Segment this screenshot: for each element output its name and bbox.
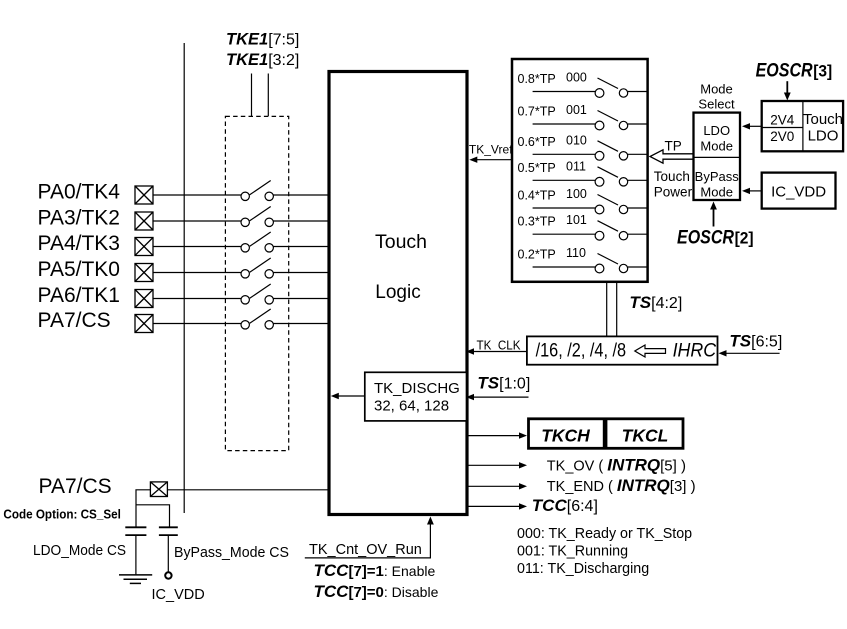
wire 0.3*TP stub (533, 233, 595, 235)
wire to TKCH (467, 432, 527, 438)
wire switch 010 to edge (628, 153, 648, 155)
pin PA3/TK2 pad (135, 212, 153, 230)
capacitor ByPass mode CS (159, 527, 178, 535)
svg-text:TK_OV ( INTRQ[5] ): TK_OV ( INTRQ[5] ) (547, 455, 686, 474)
wire switch 101 to edge (628, 233, 648, 235)
wire TK_Cnt_OV_Run arrow (305, 517, 434, 558)
wire IC_VDD to Mode Select (742, 188, 762, 194)
wire TK_END arrow (467, 483, 527, 489)
svg-text:100: 100 (566, 187, 587, 201)
switch TK1 (241, 284, 273, 304)
pin PA6/TK1 pad (135, 290, 153, 308)
svg-text:Power: Power (654, 185, 693, 200)
wire switch TK0 to Touch Logic (273, 272, 328, 274)
svg-text:PA7/CS: PA7/CS (39, 475, 112, 498)
wire cap1 to ground (135, 535, 137, 574)
wire TS42 a (606, 282, 608, 337)
svg-text:TK_END ( INTRQ[3] ): TK_END ( INTRQ[3] ) (547, 476, 696, 495)
wire switch TK1 to Touch Logic (273, 298, 328, 300)
wire TKE1 control a (251, 74, 253, 117)
svg-text:0.4*TP: 0.4*TP (518, 189, 556, 203)
vertical wire CS bus (183, 43, 185, 513)
svg-text:/16, /2, /4, /8: /16, /2, /4, /8 (536, 340, 627, 361)
wire switch TK2 to Touch Logic (273, 220, 328, 222)
svg-text:[2]: [2] (735, 229, 754, 248)
svg-text:TKE1[3:2]: TKE1[3:2] (226, 51, 299, 69)
svg-text:001: TK_Running: 001: TK_Running (517, 543, 628, 559)
wire PA0/TK4 pad to switch (153, 194, 241, 196)
clock divider block IHRC (527, 336, 718, 364)
wire TK_CLK arrow (466, 348, 527, 354)
svg-text:001: 001 (566, 103, 587, 117)
svg-text:IC_VDD: IC_VDD (771, 184, 826, 201)
wire cap2 to IC_VDD terminal (167, 535, 169, 572)
svg-text:101: 101 (566, 213, 587, 227)
Mode Select block (694, 113, 741, 200)
switch TK3 (241, 232, 273, 252)
open arrow in divider (635, 345, 666, 357)
svg-text:Mode: Mode (700, 139, 733, 154)
switch ref 000 (595, 78, 628, 97)
svg-text:LDO_Mode CS: LDO_Mode CS (33, 542, 126, 559)
svg-text:TKE1[7:5]: TKE1[7:5] (226, 31, 299, 49)
svg-text:0.8*TP: 0.8*TP (518, 72, 556, 86)
wire pad to caps (136, 490, 170, 528)
svg-text:011: TK_Discharging: 011: TK_Discharging (517, 561, 649, 577)
ground (119, 575, 152, 584)
wire switch 110 to edge (628, 266, 648, 268)
svg-text:Mode: Mode (700, 185, 733, 200)
svg-text:PA0/TK4: PA0/TK4 (38, 181, 121, 204)
svg-text:0.5*TP: 0.5*TP (518, 161, 556, 175)
pin PA4/TK3 pad (135, 238, 153, 256)
wire PA7/CS to Touch Logic (167, 489, 329, 491)
svg-text:TKCL: TKCL (622, 426, 669, 446)
switch TK4 (241, 181, 273, 201)
svg-text:0.6*TP: 0.6*TP (518, 135, 556, 149)
IC_VDD terminal (165, 572, 171, 578)
svg-text:TCC[7]=0: Disable: TCC[7]=0: Disable (314, 582, 439, 601)
wire switch TK3 to Touch Logic (273, 246, 328, 248)
switch ref 001 (595, 111, 628, 130)
svg-text:32, 64, 128: 32, 64, 128 (374, 398, 449, 415)
wire Touch LDO to Mode Select (742, 123, 762, 129)
svg-text:Code Option: CS_Sel: Code Option: CS_Sel (3, 506, 121, 521)
wire PA6/TK1 pad to switch (153, 298, 241, 300)
wire switch CS to Touch Logic (273, 323, 328, 325)
wire PA3/TK2 pad to switch (153, 220, 241, 222)
svg-text:TK_Cnt_OV_Run: TK_Cnt_OV_Run (309, 542, 422, 558)
svg-text:0.2*TP: 0.2*TP (518, 248, 556, 262)
wire 0.4*TP stub (533, 207, 595, 209)
svg-text:0.7*TP: 0.7*TP (518, 105, 556, 119)
wire EOSCR3 arrow down (784, 81, 791, 100)
svg-text:TK_Vref: TK_Vref (469, 143, 513, 157)
wire 0.5*TP stub (533, 179, 595, 181)
wire PA7/CS pad to switch (153, 323, 241, 325)
svg-text:000: TK_Ready or TK_Stop: 000: TK_Ready or TK_Stop (517, 526, 692, 542)
svg-text:Touch: Touch (375, 231, 427, 253)
wire TK_Vref arrow (469, 157, 511, 163)
wire PA5/TK0 pad to switch (153, 272, 241, 274)
svg-text:110: 110 (566, 246, 586, 260)
switch ref 010 (595, 141, 628, 160)
pin PA0/TK4 pad (135, 186, 153, 204)
svg-text:TK_DISCHG: TK_DISCHG (374, 380, 460, 397)
TK_DISCHG block (365, 372, 467, 421)
wire 0.8*TP stub (533, 91, 595, 93)
svg-text:TS[4:2]: TS[4:2] (629, 293, 682, 312)
wire 0.7*TP stub (533, 123, 595, 125)
wire EOSCR2 arrow up (710, 202, 717, 227)
wire PA4/TK3 pad to switch (153, 246, 241, 248)
wire switch 011 to edge (628, 179, 648, 181)
svg-text:Touch: Touch (654, 169, 690, 184)
dashed switch-enable box (225, 116, 288, 450)
svg-text:PA6/TK1: PA6/TK1 (38, 284, 120, 307)
svg-text:TS[1:0]: TS[1:0] (477, 374, 530, 393)
svg-text:TCC[7]=1: Enable: TCC[7]=1: Enable (314, 561, 436, 580)
svg-text:IC_VDD: IC_VDD (152, 587, 205, 603)
switch TK2 (241, 207, 273, 227)
svg-text:TK_CLK: TK_CLK (477, 338, 521, 353)
svg-text:Mode: Mode (700, 81, 733, 96)
svg-text:Select: Select (698, 97, 735, 112)
wire switch 001 to edge (628, 123, 648, 125)
Touch Logic block U1 (329, 72, 467, 515)
svg-text:011: 011 (566, 159, 586, 173)
svg-text:2V4: 2V4 (770, 113, 795, 128)
svg-text:TKCH: TKCH (541, 426, 590, 446)
svg-text:010: 010 (566, 133, 587, 147)
wire switch 100 to edge (628, 207, 648, 209)
wire 0.6*TP stub (533, 153, 595, 155)
svg-text:[3]: [3] (813, 62, 832, 81)
IC_VDD block (762, 173, 836, 209)
svg-text:LDO: LDO (808, 128, 839, 145)
svg-text:LDO: LDO (703, 123, 730, 138)
wire TCC64 arrow (467, 503, 527, 509)
svg-text:2V0: 2V0 (770, 129, 794, 144)
wire 0.2*TP stub (533, 266, 595, 268)
svg-text:PA5/TK0: PA5/TK0 (38, 258, 120, 281)
svg-text:IHRC: IHRC (673, 340, 717, 361)
switch ref 101 (595, 221, 628, 240)
svg-text:ByPass_Mode CS: ByPass_Mode CS (174, 544, 289, 561)
switch ref 100 (595, 195, 628, 214)
svg-text:000: 000 (566, 71, 587, 85)
svg-text:EOSCR: EOSCR (677, 228, 734, 249)
pin PA5/TK0 pad (135, 264, 153, 282)
svg-text:ByPass: ByPass (695, 169, 740, 184)
switch ref 011 (595, 167, 628, 186)
wire TKE1 control b (267, 74, 269, 117)
legend TK states (517, 526, 692, 577)
svg-text:Logic: Logic (375, 282, 420, 303)
wire TS10 arrow (466, 394, 529, 400)
svg-text:TCC[6:4]: TCC[6:4] (532, 496, 598, 515)
svg-text:0.3*TP: 0.3*TP (518, 215, 556, 229)
svg-text:Touch: Touch (803, 111, 843, 128)
TP open arrow into selector (650, 150, 694, 163)
svg-text:PA4/TK3: PA4/TK3 (38, 232, 120, 255)
svg-text:TS[6:5]: TS[6:5] (729, 332, 782, 351)
pin PA7/CS pad bottom (150, 482, 167, 497)
svg-text:PA3/TK2: PA3/TK2 (38, 207, 120, 230)
voltage reference selector box (512, 59, 648, 282)
Touch LDO block (762, 101, 843, 151)
switch ref 110 (595, 254, 628, 273)
switch TK0 (241, 258, 273, 278)
discharge arrow to pins (331, 393, 365, 399)
wire TS42 b (616, 282, 618, 337)
svg-text:PA7/CS: PA7/CS (38, 309, 111, 332)
capacitor LDO mode CS (125, 527, 146, 535)
wire TK_OV arrow (467, 462, 527, 468)
wire TS65 arrow (719, 350, 780, 356)
svg-text:TP: TP (665, 139, 682, 154)
registers TKCH TKCL (529, 418, 684, 449)
wire switch 000 to edge (628, 91, 648, 93)
svg-text:EOSCR: EOSCR (756, 61, 813, 82)
wire switch TK4 to Touch Logic (273, 194, 328, 196)
switch CS (241, 309, 273, 329)
pin PA7/CS pad (135, 315, 153, 333)
